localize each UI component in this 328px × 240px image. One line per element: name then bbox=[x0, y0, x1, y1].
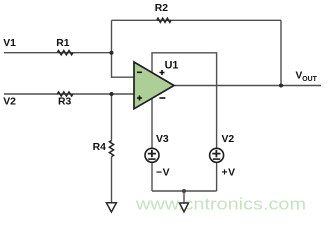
svg-text:www.cntronics.com: www.cntronics.com bbox=[135, 194, 306, 213]
op-amp positive supply marker bbox=[160, 70, 165, 75]
wire V2 source bottom bbox=[216, 162, 218, 191]
source V3 symbol bbox=[145, 148, 159, 162]
op-amp non-inverting input marker bbox=[137, 96, 142, 101]
op-amp inverting input marker bbox=[137, 71, 142, 73]
op-amp negative supply marker bbox=[159, 97, 165, 99]
node B junction V2/R4 bbox=[110, 92, 114, 96]
node A junction V1/R2 bbox=[110, 51, 114, 55]
resistor R4 bbox=[109, 141, 113, 157]
wire feedback right vertical bbox=[280, 20, 282, 85]
resistor R2 bbox=[157, 18, 171, 22]
svg-text:+V: +V bbox=[222, 168, 236, 179]
svg-text:R2: R2 bbox=[155, 3, 169, 14]
resistor R3 bbox=[57, 92, 73, 96]
wire V2 input horizontal bbox=[4, 93, 134, 95]
wire R4 to ground bbox=[111, 157, 113, 203]
svg-text:R1: R1 bbox=[56, 38, 70, 49]
wire V3 bottom bbox=[151, 162, 153, 191]
node output junction bbox=[279, 84, 283, 88]
svg-text:V2: V2 bbox=[222, 134, 235, 145]
wire output horizontal bbox=[174, 85, 321, 87]
svg-text:R3: R3 bbox=[58, 96, 72, 107]
op-amp U1 bbox=[134, 62, 174, 109]
resistor R1 bbox=[57, 51, 73, 55]
svg-text:U1: U1 bbox=[165, 60, 179, 72]
wire positive supply loop bbox=[152, 53, 217, 149]
wire R4 branch vertical bbox=[111, 94, 113, 141]
svg-text:−V: −V bbox=[156, 168, 170, 179]
svg-text:V2: V2 bbox=[3, 96, 16, 107]
svg-text:R4: R4 bbox=[93, 142, 107, 153]
wire top feedback horizontal bbox=[112, 19, 282, 21]
svg-text:V1: V1 bbox=[3, 38, 16, 49]
node supply rail junction bbox=[182, 189, 186, 193]
wire V1 input horizontal bbox=[4, 52, 112, 54]
ground (supply rail) bbox=[180, 203, 189, 212]
ground (R4) bbox=[106, 203, 116, 212]
wire bottom supply rail bbox=[152, 190, 217, 192]
svg-text:V3: V3 bbox=[156, 134, 169, 145]
wire feedback vertical bbox=[112, 20, 135, 77]
source V2 symbol bbox=[210, 148, 224, 162]
wire supply ground stub bbox=[183, 191, 185, 203]
wire negative supply V3 top bbox=[151, 98, 153, 149]
